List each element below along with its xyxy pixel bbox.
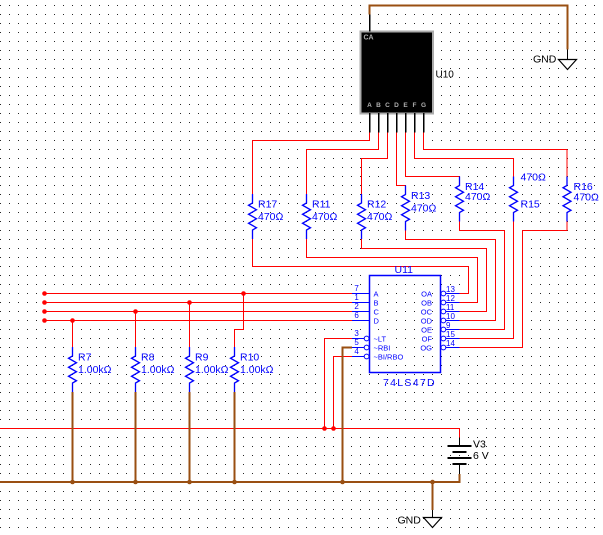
- resistor R10: [231, 347, 239, 392]
- top ground symbol GND: [559, 50, 577, 70]
- svg-text:1.00kΩ: 1.00kΩ: [240, 364, 274, 376]
- U11 pin numbers 7 1 2 6 (inputs): [354, 284, 359, 320]
- junction net2-R9: [187, 300, 192, 305]
- resistor R9: [186, 347, 194, 392]
- svg-text:GND: GND: [533, 54, 557, 66]
- wire R7 leg to ground bus: [72, 392, 74, 482]
- svg-text:~LT: ~LT: [374, 334, 387, 343]
- wire net3 to R8: [135, 312, 137, 348]
- U11 pin numbers 13 12 11 10 9 15 14 (outputs): [446, 285, 455, 348]
- resistor R8: [132, 347, 140, 392]
- wire ground bus to GND symbol: [432, 482, 434, 510]
- svg-text:GND: GND: [398, 515, 422, 527]
- svg-text:1.00kΩ: 1.00kΩ: [141, 364, 175, 376]
- svg-text:OB: OB: [421, 298, 432, 307]
- U11 port names A B C D: [373, 289, 380, 325]
- wire U11 ~RBI pin5 to ground bus (brown): [343, 348, 353, 483]
- wire net B: display B - R11 - U11 pin12: [307, 133, 478, 303]
- node input net 3 end: [42, 309, 47, 314]
- junction R9-bus: [187, 480, 192, 485]
- svg-text:R13: R13: [411, 190, 430, 202]
- junction R10-bus: [232, 480, 237, 485]
- svg-text:13: 13: [446, 285, 455, 294]
- svg-text:F: F: [413, 102, 417, 109]
- svg-text:7: 7: [354, 284, 359, 293]
- seven-segment display U10 body: [360, 31, 435, 115]
- svg-text:470Ω: 470Ω: [367, 211, 393, 223]
- U11 port names OA-OG: [420, 289, 432, 352]
- wire input net 3 (to U11 C pin2): [45, 311, 353, 313]
- svg-text:G: G: [421, 102, 426, 109]
- wire U11 ~BI/RBO pin4 to V+ rail: [334, 357, 353, 429]
- junction RBI-bus: [340, 480, 345, 485]
- wire U11 ~LT pin3 to V+ rail: [325, 339, 353, 429]
- svg-text:R17: R17: [258, 199, 277, 211]
- svg-text:V3: V3: [473, 439, 486, 451]
- wire net G: display G - R16 - U11 pin14: [424, 133, 568, 348]
- svg-text:R15: R15: [521, 199, 540, 211]
- svg-text:C: C: [374, 307, 380, 316]
- junction R7-bus: [70, 480, 75, 485]
- U11 pin numbers 3 5 4 (controls): [354, 329, 359, 356]
- U11 control pins ~LT ~RBI ~BI/RBO with bubbles: [352, 336, 369, 359]
- resistor R13: [402, 186, 410, 231]
- wire net4 to R7: [72, 321, 74, 348]
- wire R9 leg to ground bus: [189, 392, 191, 482]
- junction R8-bus: [133, 480, 138, 485]
- display U10 bottom pins A-G: [370, 113, 424, 133]
- svg-text:470Ω: 470Ω: [312, 211, 338, 223]
- svg-text:D: D: [394, 102, 399, 109]
- junction pin4 wire on rail: [331, 426, 336, 431]
- junction pin3 wire on rail: [322, 426, 327, 431]
- junction net3-R8: [133, 309, 138, 314]
- wire CA to top ground (brown): [370, 6, 568, 50]
- svg-text:4: 4: [354, 347, 359, 356]
- node input net 2 end: [42, 300, 47, 305]
- svg-text:1.00kΩ: 1.00kΩ: [195, 364, 229, 376]
- svg-text:~BI/RBO: ~BI/RBO: [374, 352, 404, 361]
- wire ground bus (brown): [0, 474, 460, 482]
- wire input net 2 (to U11 B pin1): [45, 302, 353, 304]
- wire input net 4 (to U11 D pin6): [45, 320, 353, 322]
- wire net D: display D - R13 - U11 pin10: [397, 133, 496, 321]
- svg-text:R12: R12: [367, 199, 386, 211]
- svg-text:~RBI: ~RBI: [374, 343, 391, 352]
- op-amp U11 box (74LS47D BCD decoder): [370, 276, 441, 373]
- resistor R15: [510, 177, 518, 222]
- display U10 segment pin labels A-G: [367, 102, 426, 109]
- resistor R11: [303, 194, 311, 239]
- svg-text:10: 10: [446, 312, 455, 321]
- display U10 top pin (CA): [369, 15, 371, 32]
- resistor R16: [563, 177, 571, 222]
- svg-text:E: E: [403, 102, 408, 109]
- junction GND-bus: [430, 480, 435, 485]
- svg-text:A: A: [374, 289, 379, 298]
- svg-text:R10: R10: [240, 352, 259, 364]
- svg-text:5: 5: [354, 338, 359, 347]
- svg-text:470Ω: 470Ω: [521, 172, 547, 184]
- svg-text:R7: R7: [78, 352, 92, 364]
- svg-text:U10: U10: [436, 70, 455, 81]
- wire net A: display A - R17 - U11 pin13: [253, 133, 469, 294]
- svg-text:OA: OA: [421, 289, 432, 298]
- svg-text:A: A: [367, 102, 372, 109]
- svg-text:12: 12: [446, 294, 455, 303]
- wire net1 to R10: [235, 294, 244, 348]
- svg-text:11: 11: [446, 303, 455, 312]
- svg-text:R9: R9: [195, 352, 209, 364]
- resistor R14: [456, 177, 464, 222]
- svg-text:U11: U11: [395, 264, 414, 276]
- svg-text:6 V: 6 V: [473, 450, 489, 462]
- wire R8 leg to ground bus: [135, 392, 137, 482]
- svg-text:OC: OC: [421, 307, 433, 316]
- svg-text:470Ω: 470Ω: [258, 211, 284, 223]
- svg-text:OE: OE: [421, 325, 432, 334]
- svg-text:OF: OF: [422, 334, 433, 343]
- svg-text:2: 2: [354, 302, 359, 311]
- svg-text:C: C: [385, 102, 390, 109]
- svg-text:470Ω: 470Ω: [411, 203, 437, 215]
- wire net C: display C - R12 - U11 pin11: [362, 133, 487, 312]
- bottom ground symbol GND: [424, 510, 442, 528]
- wire input net 1 (to U11 A pin7): [45, 293, 353, 295]
- node input net 1 end: [42, 291, 47, 296]
- U11 port names ~LT ~RBI ~BI/RBO: [373, 334, 407, 361]
- svg-text:14: 14: [446, 339, 455, 348]
- U11 input pins A B C D: [352, 294, 370, 321]
- svg-text:R8: R8: [141, 352, 155, 364]
- svg-text:9: 9: [446, 321, 451, 330]
- svg-text:1.00kΩ: 1.00kΩ: [78, 364, 112, 376]
- wire net E: display E - R14 - U11 pin9: [406, 133, 505, 330]
- battery V3: [448, 438, 472, 475]
- wire net F: display F - R15 - U11 pin15: [415, 133, 514, 339]
- svg-text:B: B: [374, 298, 379, 307]
- svg-text:74LS47D: 74LS47D: [383, 377, 436, 389]
- junction net1-R10: [241, 291, 246, 296]
- svg-text:CA: CA: [364, 35, 374, 42]
- svg-text:B: B: [376, 102, 381, 109]
- wire R10 leg to ground bus: [234, 392, 236, 482]
- resistor R7: [69, 347, 77, 392]
- svg-text:R11: R11: [312, 199, 331, 211]
- U11 output pins OA-OG with bubbles: [441, 291, 460, 350]
- svg-text:OG: OG: [420, 343, 432, 352]
- svg-text:OD: OD: [421, 316, 433, 325]
- wire V+ rail to battery: [0, 429, 460, 438]
- svg-text:470Ω: 470Ω: [574, 192, 600, 204]
- junction net4-R7: [70, 318, 75, 323]
- node input net 4 end: [42, 318, 47, 323]
- svg-text:470Ω: 470Ω: [465, 191, 491, 203]
- resistor R12: [358, 194, 366, 239]
- svg-text:D: D: [374, 316, 380, 325]
- svg-text:15: 15: [446, 330, 455, 339]
- wire net2 to R9: [189, 303, 191, 348]
- svg-text:1: 1: [354, 293, 359, 302]
- svg-text:6: 6: [354, 311, 359, 320]
- svg-text:3: 3: [354, 329, 359, 338]
- resistor R17: [249, 194, 257, 239]
